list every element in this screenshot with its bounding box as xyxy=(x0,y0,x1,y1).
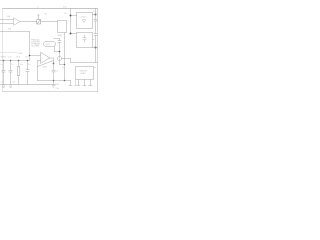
svg-text:1u: 1u xyxy=(11,64,13,66)
wire Q1 bottom xyxy=(60,61,65,65)
wire U5 minus stub xyxy=(38,61,41,67)
pin 1 xyxy=(77,80,80,86)
svg-text:J1: J1 xyxy=(37,6,39,8)
svg-text:C7: C7 xyxy=(93,11,95,13)
wire feedback diagonal xyxy=(38,61,54,67)
svg-text:1u: 1u xyxy=(28,64,30,66)
svg-text:C13: C13 xyxy=(25,57,28,59)
pin 3 xyxy=(89,80,92,86)
svg-text:0.1u: 0.1u xyxy=(1,82,4,84)
wire U3 right pin xyxy=(93,14,96,16)
rounded box Y1 xyxy=(44,42,56,47)
node d3 xyxy=(18,60,20,62)
node at 53.5,63.5 xyxy=(53,63,55,65)
capacitor inside U4 xyxy=(83,35,87,43)
wire bottom rail xyxy=(38,80,71,82)
wire U5 output xyxy=(50,58,54,64)
wire x37.5 down xyxy=(37,67,39,81)
wire input B to op-amp U1 xyxy=(0,23,14,25)
capacitor C5 below output xyxy=(52,64,55,81)
connector J1 xyxy=(37,20,41,25)
svg-text:C12: C12 xyxy=(8,57,11,59)
pin 2 xyxy=(83,80,86,86)
wire Y1 bottom pin xyxy=(55,47,60,52)
svg-text:OSC1: OSC1 xyxy=(46,44,51,46)
current source Q1 xyxy=(57,56,61,60)
dashed divider xyxy=(0,52,17,54)
box J2 bottom right xyxy=(76,67,94,80)
wire input node xyxy=(0,31,30,33)
op-amp U5 xyxy=(41,53,50,64)
svg-text:10k: 10k xyxy=(13,82,16,84)
capacitor C3 xyxy=(26,61,29,85)
node at 95.5,14.5 xyxy=(95,14,97,16)
ground G2 xyxy=(69,81,72,86)
ground tick 2 xyxy=(9,86,12,87)
capacitor C6 xyxy=(58,39,61,56)
capacitor C2 xyxy=(9,61,12,85)
node d2 xyxy=(10,60,12,62)
ground G1 xyxy=(51,81,55,88)
svg-text:LT1004: LT1004 xyxy=(80,17,86,19)
wire node VCC to U3 xyxy=(71,15,77,17)
svg-text:R22 TRIM: R22 TRIM xyxy=(31,45,39,47)
pin stub J2 right xyxy=(94,67,96,69)
svg-text:AMP1: AMP1 xyxy=(58,34,63,37)
symbol inside U3 xyxy=(83,20,86,23)
wire VCC drop xyxy=(70,9,72,34)
node d4 xyxy=(27,60,29,62)
svg-text:C5: C5 xyxy=(56,71,58,73)
wire C6 top xyxy=(54,38,60,40)
svg-text:10k: 10k xyxy=(20,64,23,66)
wire U1 output xyxy=(20,21,37,23)
arrow inside Q1 xyxy=(59,57,61,60)
wire x64.5 to rail xyxy=(64,65,66,81)
node at 59.5,51.5 xyxy=(59,51,61,53)
wire Q1 right side xyxy=(62,59,98,63)
wire to U4 left xyxy=(71,33,77,35)
sheet border right xyxy=(97,9,99,92)
ground tick 1 xyxy=(2,86,5,87)
op-amp U1 xyxy=(14,18,20,26)
wire J1 to box U2 xyxy=(41,21,58,23)
node VCC junction xyxy=(70,15,72,17)
box U3 xyxy=(77,13,93,29)
node at 53.5,80.5 xyxy=(53,80,55,82)
wire U4 bottom-right to border xyxy=(93,47,98,49)
sheet border left xyxy=(2,9,4,92)
pin stub U4 right xyxy=(93,39,95,41)
bus node line left xyxy=(0,60,30,62)
node at 64.5,64.5 xyxy=(64,64,66,66)
sheet border top xyxy=(3,8,98,10)
node at 95.5,47.5 xyxy=(95,47,97,49)
svg-text:LM321: LM321 xyxy=(43,67,48,69)
node at 29.5,55.5 xyxy=(29,55,31,57)
svg-text:R14: R14 xyxy=(17,57,20,59)
node d1 xyxy=(3,60,5,62)
svg-text:HEAD: HEAD xyxy=(81,72,87,75)
svg-text:1k2: 1k2 xyxy=(62,67,65,69)
box U2 xyxy=(58,21,67,33)
wire to op-amp U5 plus input xyxy=(30,55,41,57)
svg-text:1u: 1u xyxy=(0,64,2,66)
resistor R1 xyxy=(18,61,20,67)
capacitor C1 xyxy=(2,61,5,85)
capacitor C8 right column xyxy=(94,34,97,63)
sheet border bottom xyxy=(3,91,98,93)
wire U2 bottom pin down xyxy=(64,33,66,65)
box U4 xyxy=(77,33,93,48)
node at 64.5,80.5 xyxy=(64,80,66,82)
capacitor C7 right column xyxy=(94,9,97,34)
node junction at 70.5,33.5 xyxy=(70,33,72,35)
wire J1 top stub xyxy=(38,15,40,20)
wire input A to op-amp U1 xyxy=(0,19,14,21)
ground bus left xyxy=(0,84,51,86)
svg-text:VREG: VREG xyxy=(1,57,7,59)
wire vertical x29 xyxy=(29,32,31,61)
svg-text:TP1: TP1 xyxy=(44,14,47,16)
pin 0 xyxy=(74,80,77,86)
